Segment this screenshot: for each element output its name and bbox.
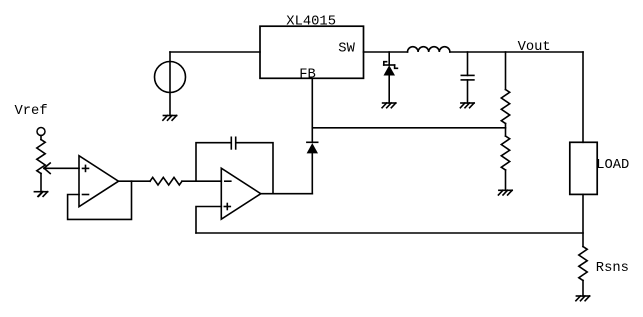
wire inductor to Vout corner (450, 51, 583, 53)
svg-text:SW: SW (338, 42, 355, 57)
resistor R2 lower divider (501, 136, 509, 170)
wire SW diode drop (388, 52, 390, 65)
wire divider middle node (505, 124, 507, 137)
potentiometer wiper arrow (44, 163, 50, 174)
capacitor C1 (461, 75, 474, 80)
ground (divider) (498, 190, 512, 195)
wire integrator top rail right (237, 143, 274, 194)
op-amp U2 minus sign (225, 180, 231, 182)
wire op-amp U2 output (261, 193, 313, 195)
op-amp U2 body (221, 168, 260, 219)
ground (pot) (34, 192, 47, 197)
svg-text:XL4015: XL4015 (286, 15, 336, 30)
schottky diode D1 cathode bar (384, 62, 398, 69)
ground (Rsns) (576, 296, 590, 301)
wire through voltage source (169, 52, 171, 116)
op-amp U1 body (79, 156, 119, 207)
ground (source) (163, 116, 177, 121)
svg-text:LOAD: LOAD (596, 158, 629, 173)
resistor R1 upper divider (501, 90, 509, 124)
wire divider to ground (505, 170, 507, 190)
wire R3 to U2 inverting input (182, 180, 221, 182)
voltage source V1 (155, 62, 186, 93)
ground (catch diode) (382, 103, 396, 108)
svg-text:Rsns: Rsns (596, 261, 629, 276)
wire terminal to pot (40, 136, 42, 140)
svg-text:Vref: Vref (15, 103, 48, 119)
svg-text:FB: FB (299, 67, 316, 82)
wire LOAD to sense node (582, 194, 584, 246)
wire U2 non-inverting input (196, 207, 221, 234)
regulator U3 XL4015 box (260, 26, 364, 78)
wire current sense rail (196, 232, 583, 234)
op-amp U1 plus sign (83, 165, 89, 171)
resistor R3 series (150, 177, 182, 185)
wire divider top (505, 52, 507, 90)
diode D2 cathode bar (307, 141, 318, 143)
wire Vout down to LOAD (582, 52, 584, 142)
wire input rail to regulator (170, 51, 260, 53)
terminal (Vref) (37, 128, 45, 136)
capacitor C2 (231, 137, 235, 149)
op-amp U1 minus sign (83, 194, 89, 196)
op-amp U2 plus sign (224, 204, 230, 210)
wire integrator top rail left (196, 143, 231, 182)
wire Rsns to ground (582, 281, 584, 297)
load box (570, 142, 597, 194)
diode D2 body (307, 143, 318, 153)
svg-text:Vout: Vout (518, 40, 551, 55)
wire pot to ground (40, 174, 42, 192)
wire wiper to op-amp U1 (44, 167, 79, 169)
wire FB tap (312, 127, 505, 129)
inductor L1 (408, 47, 450, 52)
wire U1 feedback loop (68, 181, 132, 219)
wire FB pin down (311, 78, 313, 142)
wire cap C1 bottom (467, 80, 469, 103)
resistor Rsns (579, 247, 587, 281)
schottky diode D1 body (384, 65, 396, 75)
wire SW output (364, 51, 408, 53)
ground (output cap) (460, 103, 474, 108)
wire cap C1 top (467, 52, 469, 75)
wire diode D2 to op-amp output (311, 153, 313, 193)
wire diode to ground (388, 76, 390, 104)
wire U1 output (119, 180, 151, 182)
potentiometer RV1 body (37, 140, 45, 174)
